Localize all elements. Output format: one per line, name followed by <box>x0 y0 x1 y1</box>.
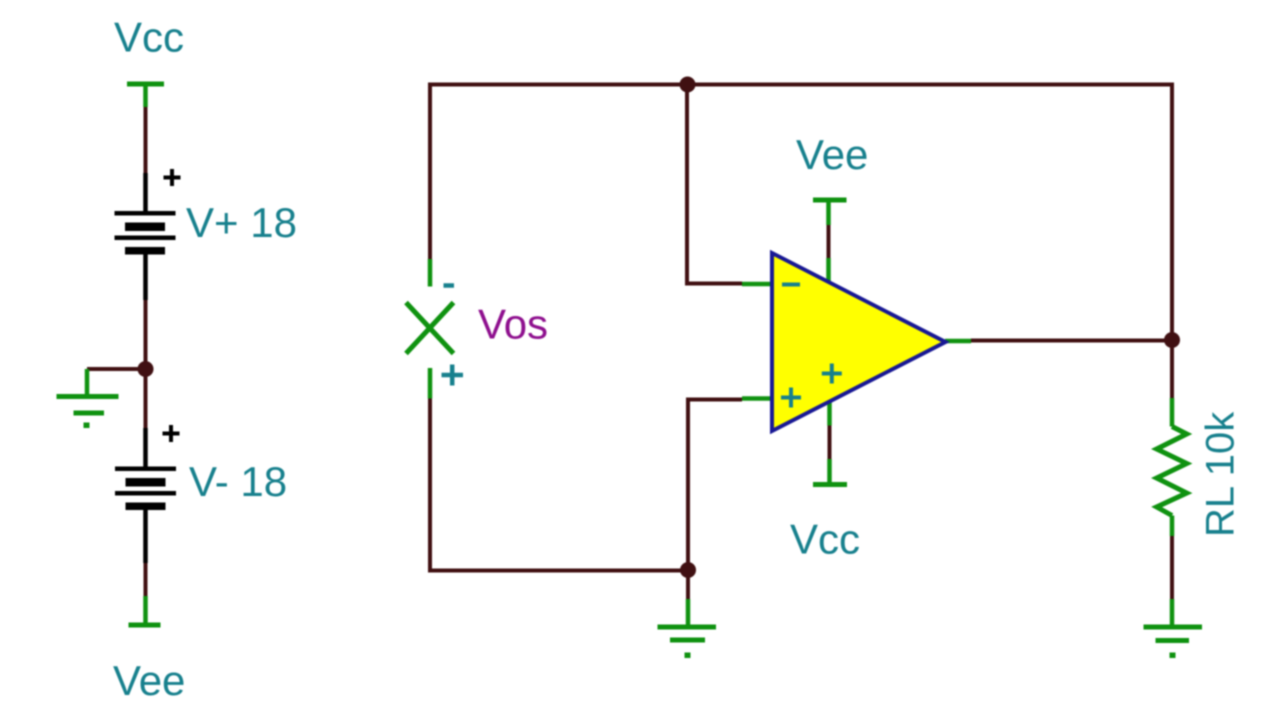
junction node D <box>1164 332 1180 348</box>
ground GND1 <box>57 369 119 428</box>
wire <box>87 367 146 371</box>
wire <box>430 85 684 260</box>
junction node B <box>680 562 696 578</box>
wire <box>144 563 148 598</box>
svg-text:V- 18: V- 18 <box>189 458 287 505</box>
svg-text:V+ 18: V+ 18 <box>186 199 297 246</box>
svg-text:RL 10k: RL 10k <box>1199 411 1243 537</box>
wire <box>144 372 148 428</box>
svg-text:Vee: Vee <box>796 131 868 178</box>
wire <box>1170 536 1174 599</box>
wire <box>691 85 1172 337</box>
ground GND2 <box>658 599 717 658</box>
battery V1 <box>115 169 181 300</box>
junction node C <box>680 77 696 93</box>
svg-text:Vos: Vos <box>478 301 548 348</box>
power terminal Vee (left bottom) <box>129 596 161 625</box>
power terminal Vcc (left top) <box>127 84 164 107</box>
wire <box>971 339 1172 343</box>
wire <box>827 225 831 258</box>
op-amp U1 <box>742 253 971 431</box>
wire <box>687 85 742 284</box>
source Vos <box>406 259 463 399</box>
ground GND3 <box>1144 599 1203 658</box>
power terminal Vcc (op-amp bottom) <box>813 459 847 485</box>
wire <box>688 400 742 571</box>
wire <box>828 426 832 460</box>
wire <box>144 300 148 366</box>
wire <box>686 570 690 599</box>
svg-text:Vcc: Vcc <box>790 516 860 563</box>
wire <box>430 399 684 571</box>
junction node A <box>138 361 154 377</box>
svg-text:Vcc: Vcc <box>114 14 184 61</box>
power terminal Vee (op-amp top) <box>813 200 847 225</box>
resistor RL <box>1157 398 1187 536</box>
wire <box>1170 340 1174 398</box>
battery V2 <box>115 425 180 563</box>
wire <box>144 107 148 173</box>
svg-text:Vee: Vee <box>113 657 185 704</box>
